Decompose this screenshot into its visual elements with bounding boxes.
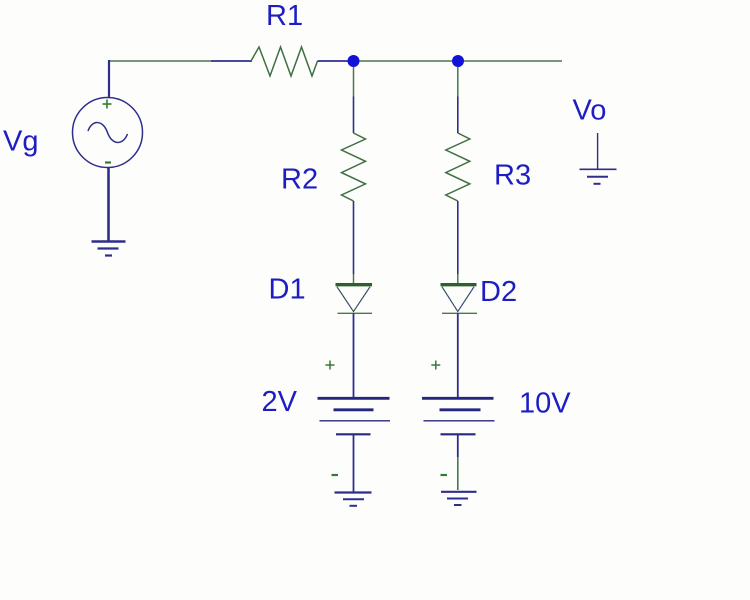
svg-text:R3: R3 <box>494 160 531 192</box>
svg-text:R1: R1 <box>266 0 303 32</box>
svg-text:Vg: Vg <box>3 126 38 158</box>
svg-text:2V: 2V <box>262 386 298 418</box>
svg-text:R2: R2 <box>281 164 318 196</box>
svg-text:Vo: Vo <box>573 95 607 127</box>
svg-text:10V: 10V <box>519 388 571 420</box>
svg-text:D1: D1 <box>269 274 306 306</box>
svg-text:D2: D2 <box>480 276 517 308</box>
